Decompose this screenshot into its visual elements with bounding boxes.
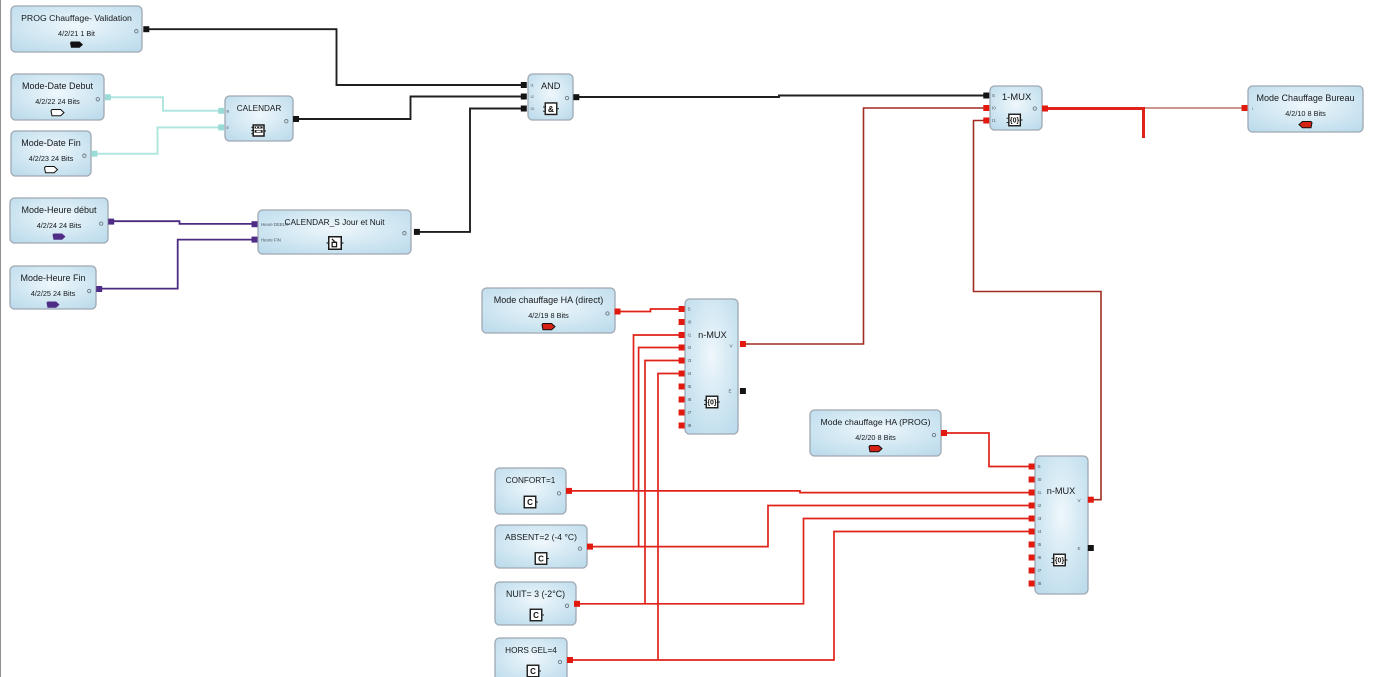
svg-text:4/2/25 24 Bits: 4/2/25 24 Bits — [31, 289, 76, 298]
svg-text:I0: I0 — [1038, 477, 1042, 482]
svg-text:4/2/24 24 Bits: 4/2/24 24 Bits — [37, 221, 82, 230]
svg-text:NUIT= 3 (-2°C): NUIT= 3 (-2°C) — [506, 589, 565, 599]
svg-text:I4: I4 — [1038, 529, 1042, 534]
svg-text:I3: I3 — [688, 358, 692, 363]
svg-text:Mode-Date Debut: Mode-Date Debut — [22, 81, 94, 91]
svg-text:I0: I0 — [688, 320, 692, 325]
svg-text:AND: AND — [541, 81, 561, 91]
svg-text:I7: I7 — [1038, 568, 1042, 573]
svg-text:I3: I3 — [1038, 516, 1042, 521]
svg-text:I7: I7 — [688, 410, 692, 415]
svg-text:I5: I5 — [688, 384, 692, 389]
svg-text:I: I — [1252, 106, 1253, 111]
svg-text:S: S — [992, 93, 995, 98]
svg-text:C: C — [538, 554, 544, 563]
svg-text:Mode Chauffage Bureau: Mode Chauffage Bureau — [1257, 93, 1355, 103]
svg-text:Mode chauffage HA (direct): Mode chauffage HA (direct) — [494, 295, 603, 305]
svg-text:E: E — [227, 125, 230, 130]
svg-text:I6: I6 — [1038, 555, 1042, 560]
svg-text:1-MUX: 1-MUX — [1002, 92, 1032, 103]
svg-text:Mode-Date Fin: Mode-Date Fin — [21, 138, 81, 148]
svg-text:Heure DEBUT: Heure DEBUT — [261, 222, 289, 227]
svg-text:Heure FIN: Heure FIN — [261, 237, 281, 242]
svg-text:I1: I1 — [992, 118, 996, 123]
svg-text:I8: I8 — [1038, 581, 1042, 586]
svg-text:4/2/21 1 Bit: 4/2/21 1 Bit — [58, 29, 95, 38]
svg-text:{0}: {0} — [707, 400, 717, 407]
svg-text:C: C — [527, 498, 533, 507]
svg-text:4/2/20 8 Bits: 4/2/20 8 Bits — [855, 433, 896, 442]
svg-text:n-MUX: n-MUX — [1047, 486, 1076, 496]
svg-text:Mode chauffage HA (PROG): Mode chauffage HA (PROG) — [821, 417, 931, 427]
svg-text:I0: I0 — [992, 106, 996, 111]
svg-text:I5: I5 — [1038, 542, 1042, 547]
svg-text:&: & — [548, 104, 554, 114]
svg-text:E: E — [1077, 546, 1080, 551]
svg-text:4/2/10 8 Bits: 4/2/10 8 Bits — [1285, 109, 1326, 118]
svg-text:PROG Chauffage- Validation: PROG Chauffage- Validation — [21, 13, 132, 23]
svg-text:CONFORT=1: CONFORT=1 — [506, 476, 556, 485]
svg-text:4/2/23 24 Bits: 4/2/23 24 Bits — [29, 154, 74, 163]
svg-text:E: E — [728, 389, 731, 394]
svg-text:I2: I2 — [1038, 503, 1042, 508]
svg-text:4/2/22 24 Bits: 4/2/22 24 Bits — [35, 97, 80, 106]
svg-text:HORS GEL=4: HORS GEL=4 — [505, 646, 557, 655]
svg-text:I4: I4 — [688, 371, 692, 376]
svg-text:S: S — [688, 307, 691, 312]
svg-text:I8: I8 — [688, 423, 692, 428]
svg-text:I1: I1 — [688, 333, 692, 338]
svg-text:B: B — [227, 109, 230, 114]
svg-text:I2: I2 — [688, 345, 692, 350]
svg-text:I1: I1 — [1038, 490, 1042, 495]
svg-text:CALENDAR_S Jour et Nuit: CALENDAR_S Jour et Nuit — [284, 217, 385, 227]
svg-text:Mode-Heure début: Mode-Heure début — [21, 205, 97, 215]
svg-text:CALENDAR: CALENDAR — [237, 104, 282, 113]
svg-text:{0}: {0} — [1055, 558, 1065, 565]
svg-text:C: C — [533, 611, 539, 620]
svg-text:n-MUX: n-MUX — [698, 330, 727, 340]
svg-text:Mode-Heure Fin: Mode-Heure Fin — [20, 273, 85, 283]
svg-text:ABSENT=2 (-4 °C): ABSENT=2 (-4 °C) — [505, 532, 577, 542]
svg-text:S: S — [1038, 464, 1041, 469]
svg-text:I6: I6 — [688, 397, 692, 402]
svg-text:4/2/19 8 Bits: 4/2/19 8 Bits — [528, 311, 569, 320]
svg-text:C: C — [530, 667, 536, 676]
svg-text:{0}: {0} — [1010, 118, 1020, 125]
